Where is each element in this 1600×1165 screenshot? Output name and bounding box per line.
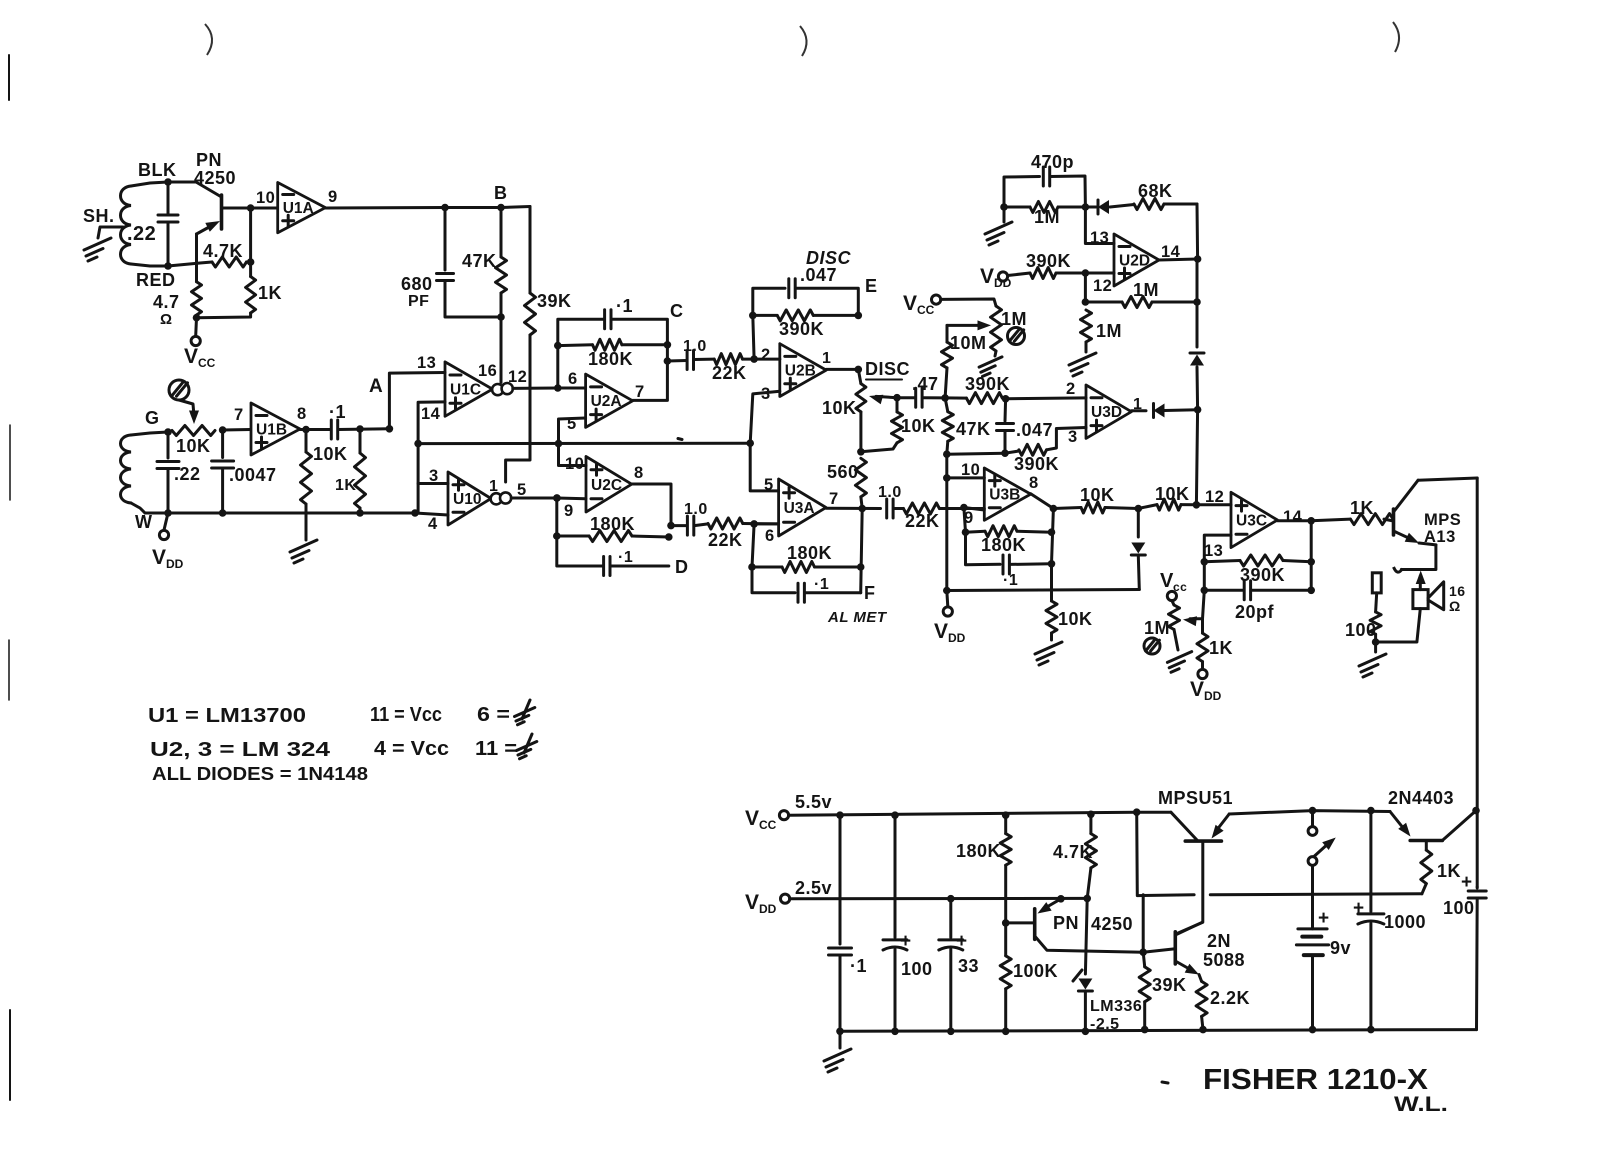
node U3C pin12 [1193, 501, 1201, 509]
svg-text:4 = Vcc: 4 = Vcc [374, 738, 449, 760]
svg-text:12: 12 [1093, 277, 1112, 295]
pin 3 (U3D) [1068, 428, 1078, 446]
svg-text:DISC: DISC [806, 248, 852, 268]
coil L2 (G/W) [121, 432, 169, 513]
svg-text:+: + [1353, 898, 1365, 919]
resistor 100 (jack) [1345, 593, 1381, 652]
wire Vcc to 1M pot [941, 299, 996, 306]
node 680pf junction [441, 204, 449, 212]
resistor 390K (to U3D pin3) [1005, 428, 1086, 475]
terminal Vdd (ref) [934, 591, 966, 646]
pin 3 (U1D) [429, 467, 439, 485]
node 20pf left [1201, 587, 1209, 595]
capacitor .1 (U3B fb) [1003, 555, 1052, 589]
wire U3A fb right [861, 509, 863, 593]
node Vcc 180K [1002, 811, 1010, 819]
title mark [1162, 1082, 1168, 1083]
wire 470p loop left [1004, 177, 1040, 208]
node 390K right [855, 312, 863, 320]
wire fb right vertical [1310, 521, 1313, 591]
node U3C out [1307, 517, 1315, 525]
svg-text:20pf: 20pf [1235, 602, 1275, 622]
node 1M fb left [1082, 298, 1090, 306]
label W [135, 512, 153, 532]
svg-text:5.5v: 5.5v [795, 792, 832, 812]
Vcc rail [789, 811, 1390, 816]
op-amp U3B [984, 468, 1030, 520]
capacitor .0047 [212, 430, 277, 513]
label MPSU51 [1158, 788, 1233, 808]
resistor 22K (to U2B) [712, 354, 780, 383]
page curl mark top-right [1393, 22, 1399, 52]
capacitor 470p [1031, 152, 1085, 207]
svg-text:9: 9 [564, 502, 574, 520]
potentiometer 1M (sensitivity) [991, 306, 1028, 351]
pin 14 (U3C out) [1283, 508, 1303, 526]
base line right [1210, 892, 1422, 896]
pin 7 (U2A out) [635, 383, 645, 401]
page curl mark top-left [205, 24, 212, 55]
wire U1B out [300, 428, 331, 431]
node U2D pin13 branch [1082, 203, 1090, 211]
svg-text:1000: 1000 [1384, 912, 1426, 932]
node U3A pin 6 [750, 520, 758, 528]
resistor 180K (U3B fb) [966, 526, 1052, 555]
node A [369, 376, 393, 433]
legend 11 = Vcc [370, 704, 442, 726]
wire U3A fb left [752, 524, 795, 593]
wire U1A output to node B [325, 207, 530, 209]
resistor 2.2K [1196, 981, 1250, 1029]
legend U2,3 = LM324 [150, 739, 331, 761]
svg-text:8: 8 [297, 405, 307, 423]
svg-text:2N4403: 2N4403 [1388, 788, 1454, 808]
node U3B fb right [1048, 528, 1056, 567]
switch SW1 [1308, 811, 1336, 929]
resistor 390K (U2B fb) [753, 310, 859, 339]
terminal Vdd (coil) [152, 513, 184, 571]
pin 8 (U3B out) [1029, 474, 1039, 492]
node E [865, 276, 878, 296]
svg-text:2: 2 [1066, 380, 1076, 398]
pin 9 (U1A out) [328, 188, 338, 206]
mid-rail (reference net) [418, 442, 750, 445]
pin 8 (U2C out) [634, 464, 644, 482]
wire pot bottom [859, 412, 862, 452]
node collector bus [1472, 807, 1480, 815]
node 4.7K right [247, 258, 255, 266]
svg-text:FISHER 1210-X: FISHER 1210-X [1203, 1064, 1429, 1096]
svg-text:13: 13 [1204, 542, 1223, 560]
svg-text:10K: 10K [1080, 485, 1115, 505]
svg-text:4: 4 [428, 515, 438, 533]
wire U3B out [1031, 494, 1081, 509]
ground (10K) [1035, 642, 1062, 665]
svg-text:11 = Vcc: 11 = Vcc [370, 704, 442, 726]
label 2N 5088 [1203, 931, 1245, 970]
wire right bus lower [1196, 410, 1197, 505]
svg-text:G: G [145, 408, 160, 428]
resistor 180K (supply) [956, 815, 1011, 923]
node U2D out [1194, 255, 1202, 263]
svg-text:F: F [864, 583, 876, 603]
svg-text:4.7K: 4.7K [203, 241, 243, 261]
svg-text:16: 16 [1449, 583, 1466, 599]
op-amp U1D [448, 472, 511, 525]
svg-text:PN: PN [196, 150, 222, 170]
node right bus / U3D [1194, 406, 1202, 414]
resistor 1M (U2D in) [1004, 202, 1085, 228]
svg-text:·1: ·1 [618, 549, 633, 566]
node rail 100K [1002, 1028, 1010, 1036]
legend ALL DIODES = 1N4148 [152, 764, 368, 784]
op-amp U1C [445, 362, 513, 416]
svg-text:+: + [956, 931, 968, 952]
node DISC wiper [893, 394, 901, 402]
wire bias node down [249, 208, 252, 261]
wire U1C pin 14 down [418, 402, 445, 444]
wire U2C fb left [557, 498, 603, 566]
svg-text:W.L.: W.L. [1394, 1093, 1448, 1116]
svg-text:33: 33 [958, 956, 979, 976]
node U3D pin2 branch [1002, 395, 1010, 403]
terminal Vdd (vol) [1190, 662, 1222, 703]
node after .1 cap [356, 425, 364, 433]
svg-text:2.2K: 2.2K [1210, 988, 1250, 1008]
svg-text:1M: 1M [1034, 207, 1060, 227]
svg-text:22K: 22K [712, 363, 747, 383]
svg-text:PF: PF [408, 293, 429, 310]
resistor 4.7K (bias) [203, 241, 251, 267]
svg-text:10K: 10K [176, 436, 211, 456]
node pin10 junction [943, 474, 951, 482]
Vdd rail [790, 897, 1087, 900]
pot 1M wiper arrow [947, 320, 991, 330]
trimmer symbol (1M) [1008, 328, 1025, 345]
svg-text:·1: ·1 [329, 402, 346, 422]
svg-text:MPS: MPS [1424, 511, 1461, 529]
wire mid-rail to U3A pin5 [750, 443, 778, 491]
svg-text:U2, 3 = LM 324: U2, 3 = LM 324 [150, 739, 331, 761]
svg-text:U3C: U3C [1236, 513, 1267, 530]
legend U1 = LM13700 [148, 705, 306, 727]
resistor 390K (U3C fb) [1204, 555, 1311, 585]
svg-text:39K: 39K [537, 291, 572, 311]
label 5.5v [795, 792, 832, 812]
node Vdd Q emitter [1057, 895, 1065, 903]
svg-text:AL MET: AL MET [827, 609, 888, 626]
svg-text:13: 13 [1090, 229, 1109, 247]
svg-text:Ω: Ω [160, 311, 173, 328]
node D [675, 557, 689, 577]
pin 6 (U2A) [568, 370, 578, 388]
svg-text:9: 9 [328, 188, 338, 206]
wire 68K corner down [1196, 204, 1200, 259]
node .47/390K/47K [941, 394, 949, 402]
wire U2B out [826, 368, 858, 371]
resistor 10K (wiper) [861, 398, 936, 452]
node Vcc link [1133, 808, 1141, 816]
svg-text:100: 100 [1345, 620, 1377, 640]
resistor 10K (to U3C) [1138, 484, 1196, 510]
pin 16 (U1C) [478, 362, 497, 380]
svg-text:4.7: 4.7 [153, 292, 180, 312]
svg-text:7: 7 [829, 490, 839, 508]
wire pot to U1B [223, 428, 251, 432]
capacitor 1.0 (U2C out) [671, 501, 708, 535]
node 180K left [554, 342, 562, 350]
svg-text:47K: 47K [462, 251, 497, 271]
bottom rail (battery minus) [840, 1030, 1477, 1032]
svg-text:6: 6 [568, 370, 578, 388]
svg-text:2N: 2N [1207, 931, 1231, 951]
svg-text:22K: 22K [905, 511, 940, 531]
battery 9v [1296, 908, 1351, 1030]
svg-text:SH.: SH. [83, 206, 115, 226]
node rail 33 [947, 1028, 955, 1036]
wire U1C out to U2A [513, 387, 586, 390]
wire U2C out [632, 484, 671, 526]
resistor 180K (U3A fb) [752, 543, 861, 573]
pot 10K wiper arrow [179, 400, 199, 424]
wire collector to top [1418, 478, 1477, 480]
resistor 1M (U2D fb) [1085, 280, 1197, 308]
svg-text:5088: 5088 [1203, 950, 1245, 970]
wire C-loop left [558, 319, 604, 388]
node 180K right [664, 341, 672, 349]
svg-text:7: 7 [635, 383, 645, 401]
jack arc [1394, 567, 1403, 572]
node DISC [855, 366, 863, 374]
node 20pf right [1307, 587, 1315, 595]
transistor Q MPSU51 (pass, PNP) [1171, 812, 1229, 933]
wire speaker bottom [1376, 609, 1421, 642]
node mid-rail right [746, 439, 754, 447]
label PN 4250 (reg) [1053, 913, 1133, 934]
label DISC (output) [865, 359, 910, 380]
pin 1 (U1D out) [489, 478, 498, 495]
svg-text:10M: 10M [950, 333, 987, 353]
svg-text:U3A: U3A [784, 500, 815, 517]
svg-text:4250: 4250 [194, 168, 236, 188]
svg-text:10: 10 [256, 189, 275, 207]
svg-text:2.5v: 2.5v [795, 878, 832, 898]
resistor 180K (U2A fb) [558, 339, 668, 369]
svg-text:LM336: LM336 [1090, 998, 1142, 1015]
resistor 47K (ref divider) [942, 398, 990, 454]
wire to U3D pin 2 [1006, 396, 1086, 400]
svg-text:U1 = LM13700: U1 = LM13700 [148, 705, 306, 727]
wire U2D pin 13 [1085, 207, 1114, 244]
svg-text:U3D: U3D [1091, 404, 1122, 421]
svg-text:39K: 39K [1152, 975, 1187, 995]
node 390K left [749, 312, 757, 320]
svg-text:16: 16 [478, 362, 497, 380]
node G junction [164, 428, 172, 436]
node pot right [219, 426, 227, 434]
resistor 1K (shunt) [335, 429, 366, 513]
svg-text:10K: 10K [313, 444, 348, 464]
pin 5 (U3A) [764, 476, 774, 494]
resistor 1M (to gnd) [1081, 310, 1123, 352]
capacitor .1 (U1B out) [329, 402, 389, 439]
wire 39K to U1D pin 1 [506, 335, 530, 482]
transistor Q1 PN4250 (preamp, PNP) [168, 182, 222, 282]
pot wiper arrow (DISC) [869, 395, 897, 405]
svg-text:180K: 180K [590, 514, 635, 534]
svg-text:8: 8 [1029, 474, 1039, 492]
ground (10K) [290, 540, 317, 563]
capacitor .1 (D loop) [604, 549, 669, 576]
label 2.5v [795, 878, 832, 898]
svg-text:1.0: 1.0 [684, 501, 708, 518]
resistor 1K (base) [1350, 498, 1394, 525]
svg-text:1M: 1M [1144, 618, 1170, 638]
pin 4 (U1D) [428, 515, 438, 533]
capacitor .047 (ref) [997, 399, 1054, 453]
ground (1M) [1069, 353, 1096, 376]
node 39K top [1139, 948, 1147, 956]
svg-text:+: + [1318, 908, 1330, 929]
svg-text:11 =: 11 = [475, 738, 517, 760]
potentiometer 10K (DISC) [822, 369, 866, 418]
bottom rail W/Vdd [145, 512, 415, 515]
wire U1D out to U2C pin 9 [511, 497, 586, 501]
svg-text:V: V [1160, 570, 1174, 592]
svg-text:6: 6 [765, 527, 775, 545]
svg-text:390K: 390K [1026, 251, 1071, 271]
node between 10Ks [1135, 505, 1143, 513]
wire right bus upper [1196, 259, 1199, 347]
node rail 1000 [1367, 1026, 1375, 1034]
node Vdd line left [943, 587, 951, 595]
node 560 top [857, 448, 865, 456]
trimmer symbol (10K pot) [169, 380, 189, 400]
resistor 10K (U3B out) [1080, 485, 1138, 513]
node rail .1 [836, 1028, 844, 1036]
wire node to U1C pin 16 [500, 317, 503, 383]
resistor 10K (to gnd) [1046, 564, 1093, 640]
node RED junction [164, 262, 172, 270]
diode (clamp) [1131, 509, 1145, 590]
svg-text:390K: 390K [1240, 565, 1285, 585]
svg-text:U2B: U2B [785, 363, 816, 380]
diode LM336 -2.5 (zener) [1073, 970, 1142, 1033]
pin 8 (U1B out) [297, 405, 307, 423]
pin 5 (U2A) [567, 415, 577, 433]
svg-text:BLK: BLK [138, 160, 177, 180]
node 1K bottom [356, 509, 364, 517]
node U3B fb left [962, 528, 970, 536]
diode (U3D out) [1154, 404, 1198, 418]
node U2C fb left [553, 494, 561, 540]
svg-text:1M: 1M [1133, 280, 1159, 300]
node 1M left [1000, 203, 1008, 211]
transistor Q 2N4403 (PNP) [1390, 811, 1476, 841]
wire U3B pin10 [947, 476, 985, 479]
svg-text:390K: 390K [779, 319, 824, 339]
svg-text:A13: A13 [1424, 528, 1456, 546]
svg-text:22K: 22K [708, 530, 743, 550]
node B [494, 183, 508, 211]
svg-text:1K: 1K [258, 283, 282, 303]
pin 3 (U2B) [761, 385, 771, 403]
svg-text:U2C: U2C [591, 477, 622, 494]
resistor 4.7K (supply) [1053, 814, 1096, 974]
svg-text:DISC: DISC [865, 359, 910, 379]
wire U3A pin6 [754, 522, 779, 525]
node bottom rail right end [411, 509, 419, 517]
svg-text:.047: .047 [800, 265, 837, 285]
svg-text:.47: .47 [912, 374, 939, 394]
svg-text:·1: ·1 [1003, 572, 1018, 589]
svg-text:U3B: U3B [989, 487, 1020, 504]
resistor 10M [942, 325, 987, 398]
svg-text:A: A [369, 376, 383, 397]
capacitor .1 (F loop) [798, 576, 861, 602]
wire 22K to U3B pin9 [964, 508, 984, 511]
svg-text:100: 100 [901, 959, 933, 979]
node U2D pin12 [1082, 269, 1090, 277]
wire U3C pin13 [1204, 535, 1231, 562]
label DISC (top) [806, 248, 852, 268]
svg-text:C: C [670, 301, 684, 321]
node U2C out 1.0 [665, 522, 675, 541]
svg-text:W: W [135, 512, 153, 532]
node .047 bottom [1001, 449, 1009, 457]
wire U3D out [1131, 409, 1146, 412]
wire U1D pin 4 [415, 513, 448, 515]
svg-text:3: 3 [429, 467, 439, 485]
svg-text:9v: 9v [1330, 938, 1351, 958]
resistor 22K (to U3B) [903, 503, 984, 531]
pin 14 (U2D out) [1161, 243, 1181, 261]
node 390K fb right [1307, 558, 1315, 566]
node U3B out [1050, 505, 1058, 513]
capacitor 20pf [1204, 581, 1311, 622]
label RED [136, 270, 176, 290]
wire ref vertical [945, 454, 948, 590]
svg-text:D: D [675, 557, 689, 577]
svg-text:10K: 10K [822, 398, 857, 418]
search coil L1 (BLK/RED) [121, 182, 169, 266]
svg-text:4.7K: 4.7K [1053, 842, 1093, 862]
op-amp U3C [1231, 492, 1277, 547]
pin 13 (U2D) [1090, 229, 1109, 247]
svg-text:3: 3 [1068, 428, 1078, 446]
pin 7 (U1B in) [234, 406, 244, 424]
pin 2 (U2B) [761, 346, 771, 364]
svg-text:1K: 1K [335, 477, 356, 494]
resistor 1K (to Vdd) [1197, 633, 1233, 662]
svg-text:100: 100 [1443, 898, 1475, 918]
svg-text:1.0: 1.0 [878, 484, 902, 501]
diode (68K line) [1085, 200, 1134, 214]
svg-text:ALL DIODES = 1N4148: ALL DIODES = 1N4148 [152, 764, 368, 784]
resistor 22K (to U3A) [708, 518, 779, 550]
svg-text:10: 10 [961, 461, 980, 479]
svg-text:390K: 390K [1014, 454, 1059, 474]
node .0047 bottom [219, 509, 227, 517]
svg-text:1K: 1K [1437, 861, 1461, 881]
capacitor 100 (supply) [883, 815, 933, 1031]
pin 10 (U3B) [961, 461, 980, 479]
pin 14 (U1C) [421, 405, 441, 423]
svg-text:+: + [900, 931, 912, 952]
node Q base [1002, 919, 1010, 927]
terminal Vcc (disc) [903, 292, 941, 317]
svg-text:1M: 1M [1096, 321, 1122, 341]
